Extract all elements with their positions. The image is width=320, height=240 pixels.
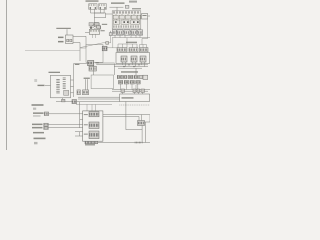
wire: S1 to relay box bbox=[49, 113, 83, 115]
wire: drop from right leads bbox=[138, 117, 140, 121]
label: fuse row caption bbox=[111, 2, 125, 4]
switch S1 bottom left bbox=[33, 112, 49, 117]
connector strip: below relay box bbox=[85, 141, 98, 144]
connector: small top right bbox=[125, 5, 129, 8]
wire: label to switch bbox=[45, 84, 51, 86]
wire: jumper to right bbox=[103, 36, 111, 43]
connector C1 bbox=[66, 35, 74, 44]
switch S2 bottom left row 2 bbox=[32, 127, 48, 130]
wire: drops under connector row bbox=[112, 19, 150, 48]
connector group upper right mid row 2 bbox=[118, 80, 140, 84]
wire: instrument bus drop bbox=[135, 68, 137, 75]
wire: C1 upper right bbox=[73, 35, 86, 37]
connector row: instrument feed 2 bbox=[129, 48, 138, 52]
junction dots on bus bbox=[123, 64, 139, 67]
connector row: instrument feed 1 bbox=[117, 48, 127, 52]
relay K2 bbox=[99, 4, 107, 10]
label: C1 pin 2 bbox=[58, 41, 64, 43]
control unit box bbox=[120, 94, 150, 102]
connector: small on rail left bbox=[62, 99, 66, 102]
wire: center rails bbox=[78, 97, 120, 99]
wire bus under instruments bbox=[114, 62, 148, 68]
relay K1 bbox=[89, 4, 97, 10]
wire: pin pair drops bbox=[85, 79, 87, 90]
combination switch box bbox=[51, 75, 71, 98]
label: sensor bbox=[95, 62, 99, 63]
junction rect right of center bbox=[91, 75, 113, 89]
wire: vertical x80 bbox=[79, 43, 81, 62]
label: bottom left note bbox=[34, 138, 46, 140]
wire: drops below C2 bbox=[93, 34, 96, 38]
wire: unit link to instrument feed bbox=[107, 38, 117, 48]
switch S2 bottom left row 1 bbox=[32, 123, 48, 126]
connector: pin block right bbox=[82, 90, 88, 95]
wire: left of C2 bbox=[85, 32, 90, 34]
wire: sensor to left feed bbox=[74, 63, 88, 65]
wire: vertical x86 bbox=[85, 36, 87, 44]
wire: S2 upper lead bbox=[48, 124, 82, 126]
wire: fuse box to right edge bbox=[148, 15, 150, 17]
wire: dashed under control unit bbox=[119, 104, 150, 106]
label: switch feed bbox=[38, 85, 45, 86]
connector ticks on ground bus bbox=[135, 142, 143, 144]
label: below bus bbox=[121, 71, 138, 73]
fuse box U1 bbox=[112, 11, 141, 29]
relay: small right edge bbox=[143, 75, 148, 79]
wire: vertical feed left of center bbox=[73, 64, 75, 97]
relay box tall bottom center bbox=[83, 111, 103, 141]
connector on center rail bbox=[72, 100, 77, 104]
label: S3 caption bbox=[33, 132, 44, 134]
label: cluster A caption bbox=[56, 28, 71, 29]
wire: stub vertical bbox=[110, 31, 112, 33]
connector stub right of C2 bbox=[109, 33, 112, 36]
wire loop below relays bbox=[94, 13, 105, 18]
component: small dark unit bbox=[102, 46, 107, 51]
wire: ground bus bottom bbox=[98, 142, 150, 144]
connector: small inline on jumper bbox=[106, 42, 109, 45]
label: combination switch caption bbox=[49, 72, 61, 73]
wire: switch exits right bbox=[71, 80, 74, 93]
wire: long dashed rail bbox=[25, 50, 80, 52]
wire: relay box right leads bbox=[103, 115, 142, 117]
wire: sensor to bus upper bbox=[96, 62, 114, 64]
label: beside vertical feed bbox=[75, 64, 80, 65]
wire: mid right rails bbox=[112, 90, 150, 92]
connector: pin block left bbox=[77, 90, 80, 95]
label: C1 pin 1 bbox=[58, 37, 64, 39]
wire: drop to connector C1 bbox=[66, 29, 68, 35]
sensor unit center bbox=[88, 61, 97, 72]
wire: feed drops to relay box bbox=[75, 102, 83, 136]
wire: relay pin drops and bus bbox=[91, 9, 105, 13]
junction box bottom right bbox=[142, 115, 151, 122]
label: strips under connector row bbox=[118, 34, 126, 35]
junction box outline bbox=[86, 45, 103, 63]
ignition switch cluster bbox=[89, 18, 101, 30]
wire: S2 lower lead bbox=[48, 127, 82, 129]
wire: C1 lower right bbox=[73, 42, 80, 44]
wire: corner link bbox=[80, 45, 86, 48]
diode block D1 bbox=[142, 14, 148, 20]
connector row: instrument feed 3 bbox=[140, 48, 149, 52]
label: top right note bbox=[129, 1, 137, 3]
connector group upper right mid row 1 bbox=[117, 75, 142, 79]
label: ignition switch bbox=[102, 24, 107, 25]
label: mid right caption bbox=[126, 42, 137, 43]
connector row under fuse box bbox=[112, 30, 143, 35]
wire: pin drops to control unit bbox=[123, 92, 143, 94]
wire: rail above relay box bbox=[76, 104, 112, 111]
wire: top right lead bbox=[110, 7, 124, 11]
wire: switch drop bbox=[61, 98, 63, 102]
label: small note far left bbox=[34, 79, 37, 82]
wire to fuse box bbox=[106, 13, 113, 15]
label: title above relays bbox=[86, 0, 99, 1]
label: small mark under note bbox=[33, 108, 36, 110]
label: below connector strip bbox=[85, 144, 95, 145]
wire: cluster drops to rails bbox=[121, 84, 138, 90]
connector C2 wide bbox=[89, 29, 99, 34]
label: horn note bbox=[32, 104, 44, 106]
wire: bottom right verticals bbox=[126, 102, 145, 143]
wire: sensor drop bbox=[92, 66, 94, 75]
label: beside C2 bbox=[101, 30, 105, 31]
wire: long center rail bbox=[56, 101, 120, 103]
connector pins on rails bbox=[121, 89, 145, 92]
relay: small bottom right bbox=[138, 121, 145, 126]
wire: sensor to bus lower bbox=[96, 64, 114, 66]
instrument cluster box bbox=[116, 53, 150, 64]
wire: bus left drop bbox=[114, 64, 116, 76]
wire: diagonal jumper bbox=[80, 43, 103, 48]
label: above pin pair bbox=[84, 78, 90, 79]
label: above block right bbox=[132, 8, 141, 9]
connector: bottom left blob bbox=[34, 142, 38, 144]
